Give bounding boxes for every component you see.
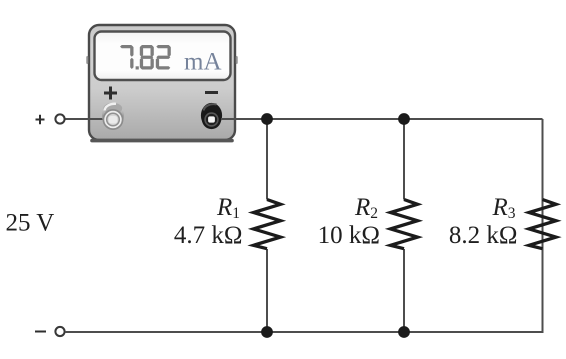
wire: ammeter right knob to node A then across top	[221, 118, 543, 120]
svg-text:R3: R3	[491, 194, 515, 222]
ammeter bottom shadow	[92, 139, 232, 143]
svg-text:R2: R2	[354, 194, 378, 222]
+ source terminal	[55, 114, 64, 123]
resistor R3	[529, 200, 556, 249]
svg-text:10 kΩ: 10 kΩ	[318, 222, 380, 249]
node A junction dot (top R1)	[261, 113, 273, 125]
node C junction dot (bottom R1)	[261, 326, 273, 338]
minus source terminal	[55, 327, 64, 336]
ammeter display	[95, 32, 231, 81]
ammeter plus mark	[104, 87, 117, 100]
ammeter left terminal knob	[102, 103, 124, 129]
plus sign at source	[36, 115, 45, 124]
resistor R2	[391, 200, 418, 249]
ammeter case seam nubs	[86, 56, 88, 64]
svg-text:R1: R1	[216, 194, 240, 222]
node D junction dot (bottom R2)	[398, 326, 410, 338]
ammeter minus mark	[205, 91, 218, 94]
minus sign at source	[35, 331, 46, 333]
resistor R1	[254, 200, 281, 249]
wire: branch R1 vertical	[266, 119, 268, 332]
svg-text:4.7 kΩ: 4.7 kΩ	[174, 222, 243, 249]
ammeter right terminal knob	[201, 103, 222, 129]
node B junction dot (top R2)	[398, 113, 410, 125]
wire: branch R2 vertical	[403, 119, 405, 332]
svg-text:mA: mA	[184, 48, 222, 75]
wire: top from + terminal to ammeter left knob	[65, 118, 106, 120]
display reading 7.82 (seven-segment)	[120, 45, 133, 48]
ammeter U1 body	[89, 25, 235, 140]
svg-text:25 V: 25 V	[6, 210, 55, 237]
svg-text:8.2 kΩ: 8.2 kΩ	[449, 222, 518, 249]
wire: bottom rail	[65, 119, 543, 332]
